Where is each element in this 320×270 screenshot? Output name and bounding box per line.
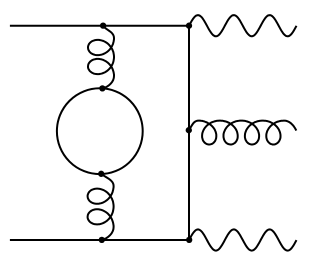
vertex dot (loop bottom) [98, 171, 104, 177]
vertex dot (bottom line / gluon) [99, 237, 105, 243]
vertex dot (top line / gluon) [100, 22, 106, 28]
fermion loop (circle) [57, 88, 143, 174]
fermion line (top) [10, 25, 189, 27]
fermion line (right vertical) [188, 26, 190, 240]
photon wave (bottom right) [189, 229, 297, 250]
vertex dot (top right corner) [186, 23, 192, 29]
fermion line (bottom) [10, 239, 189, 241]
vertex dot (vertical line / gluon) [186, 127, 192, 133]
vertex dot (loop top) [99, 85, 105, 91]
photon wave (top right) [189, 15, 297, 36]
gluon (bottom left vertical) [88, 174, 114, 240]
gluon (top left vertical) [88, 26, 114, 89]
vertex dot (bottom right corner) [186, 237, 192, 243]
gluon (middle right horizontal) [189, 121, 296, 145]
